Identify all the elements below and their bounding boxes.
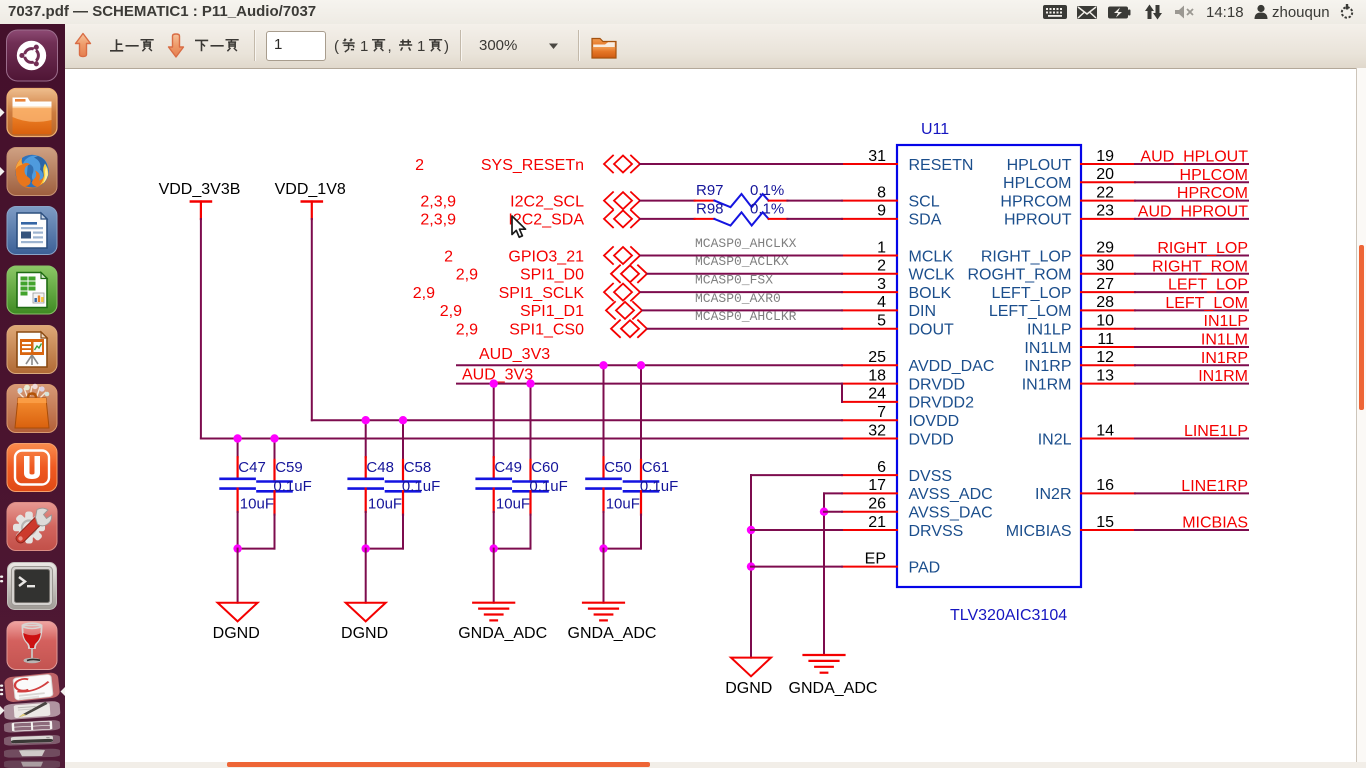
refdes U11 bbox=[921, 121, 949, 138]
focused arrow right edge bbox=[61, 687, 66, 696]
svg-text:29: 29 bbox=[1096, 239, 1114, 256]
junction C61 top bbox=[637, 361, 645, 369]
capacitor C48 10uF bbox=[349, 457, 402, 512]
wire net MCASP0_FSX bbox=[641, 291, 843, 293]
junction C50/C61 bottom bbox=[599, 544, 607, 552]
off-page connector SPI1_D1 bbox=[606, 302, 642, 319]
Ubuntu BFB launcher button bbox=[7, 30, 58, 81]
svg-text:HPLCOM: HPLCOM bbox=[1003, 175, 1071, 192]
svg-text:2: 2 bbox=[444, 248, 453, 265]
node RIGHT_LOP label bbox=[1157, 240, 1248, 257]
wire net AUD_HPLOUT bbox=[1135, 163, 1248, 165]
wire net MCASP0_AXR0 bbox=[643, 309, 843, 311]
svg-text:4: 4 bbox=[877, 294, 886, 311]
pin 7 IOVDD (U11 left) bbox=[842, 404, 959, 430]
svg-text:10: 10 bbox=[1096, 313, 1114, 330]
pin 3 BOLK (U11 left) bbox=[842, 276, 952, 302]
svg-text:2: 2 bbox=[415, 157, 424, 174]
svg-text:(: ( bbox=[334, 38, 339, 55]
pin 9 SDA (U11 left) bbox=[842, 203, 942, 229]
wire C60 top bbox=[530, 384, 532, 460]
wire net RIGHT_LOP bbox=[1135, 255, 1248, 257]
node IN1RM label bbox=[1198, 368, 1248, 385]
pin 17 AVSS_ADC (U11 left) bbox=[842, 477, 993, 503]
wire R98 right to chip bbox=[787, 218, 842, 220]
node MCASP0_AXR0 label bbox=[695, 291, 781, 306]
svg-text:GPIO3_21: GPIO3_21 bbox=[508, 248, 584, 265]
node MCASP0_AHCLKX label bbox=[695, 236, 797, 251]
svg-text:IN2L: IN2L bbox=[1038, 431, 1072, 448]
wire VDD_1V8 bus to IOVDD pin 7 bbox=[312, 419, 842, 421]
svg-text:DIN: DIN bbox=[909, 303, 937, 320]
pin 20 HPLCOM (U11 right) bbox=[1003, 166, 1135, 192]
node SPI1_SCLK page-ref 2,9 bbox=[413, 285, 435, 302]
wire C47 bottom bbox=[237, 512, 239, 549]
wire net LINE1RP bbox=[1135, 492, 1248, 494]
node MCASP0_FSX label bbox=[695, 273, 773, 288]
network up/down arrows icon bbox=[1145, 5, 1162, 20]
node LINE1RP label bbox=[1181, 478, 1248, 495]
wire net LEFT_LOP bbox=[1135, 291, 1248, 293]
svg-text:2,9: 2,9 bbox=[456, 267, 478, 284]
svg-text:0.1uF: 0.1uF bbox=[529, 478, 567, 495]
muted speaker icon bbox=[1175, 6, 1193, 19]
off-page connector SPI1_D0 bbox=[611, 265, 647, 282]
toolbar label: previous page bbox=[110, 39, 154, 51]
svg-text:HPLOUT: HPLOUT bbox=[1007, 157, 1072, 174]
wire AVSS_ADC pin 17 bbox=[824, 493, 842, 655]
node SPI1_D0 page-ref 2,9 bbox=[456, 267, 478, 284]
wire net IN1RM bbox=[1135, 383, 1248, 385]
pin 32 DVDD (U11 left) bbox=[842, 422, 954, 448]
svg-text:SCL: SCL bbox=[909, 193, 940, 210]
svg-text:IN2R: IN2R bbox=[1035, 486, 1071, 503]
wire I2C row R98 left bbox=[640, 218, 695, 220]
LibreOffice Impress icon bbox=[7, 326, 57, 374]
svg-text:RIGHT_LOP: RIGHT_LOP bbox=[981, 248, 1072, 265]
svg-text:DVSS: DVSS bbox=[909, 468, 953, 485]
wire net RIGHT_ROM bbox=[1135, 273, 1248, 275]
pin 25 AVDD_DAC (U11 left) bbox=[842, 349, 994, 375]
node SPI1_CS0 label bbox=[509, 322, 584, 339]
pin 29 RIGHT_LOP (U11 right) bbox=[981, 239, 1135, 265]
ground GNDA_ADC bbox=[568, 603, 657, 642]
pin 12 IN1RP (U11 right) bbox=[1024, 349, 1135, 375]
node SYS_RESETn page-ref 2 bbox=[415, 157, 424, 174]
junction PAD tee bbox=[747, 562, 755, 570]
pin 13 IN1RM (U11 right) bbox=[1022, 367, 1135, 393]
svg-text:R97: R97 bbox=[696, 182, 724, 199]
pin 31 RESETN (U11 left) bbox=[842, 148, 973, 174]
capacitor C60 0.1uF bbox=[514, 459, 568, 514]
fold: trash tile bbox=[4, 749, 60, 758]
node I2C2_SCL label bbox=[510, 193, 584, 210]
svg-text:DRVDD2: DRVDD2 bbox=[909, 395, 975, 412]
value TLV320AIC3104 bbox=[950, 607, 1067, 624]
svg-text:IN1RP: IN1RP bbox=[1024, 358, 1071, 375]
off-page connector SYS_RESETn bbox=[604, 156, 640, 173]
svg-text:DRVSS: DRVSS bbox=[909, 523, 964, 540]
svg-text:SPI1_SCLK: SPI1_SCLK bbox=[499, 285, 585, 302]
op-amp U11 (TLV320AIC3104 codec) body bbox=[897, 145, 1081, 587]
junction C59 top bbox=[270, 434, 278, 442]
ground GNDA_ADC bbox=[789, 655, 878, 697]
off-page connector I2C2_SCL bbox=[604, 192, 640, 209]
capacitor C59 0.1uF bbox=[258, 459, 312, 514]
junction C47 top bbox=[233, 434, 241, 442]
wire C47 to ground bbox=[237, 549, 239, 603]
svg-text:AVSS_DAC: AVSS_DAC bbox=[909, 505, 993, 522]
node GPIO3_21 label bbox=[508, 248, 584, 265]
pin 15 MICBIAS (U11 right) bbox=[1006, 514, 1135, 540]
svg-text:IN1RP: IN1RP bbox=[1201, 350, 1248, 367]
capacitor C58 0.1uF bbox=[386, 459, 440, 514]
mail envelope icon bbox=[1077, 6, 1097, 19]
svg-text:IN1RM: IN1RM bbox=[1022, 376, 1072, 393]
svg-text:9: 9 bbox=[877, 203, 886, 220]
svg-text:14: 14 bbox=[1096, 422, 1114, 439]
window-stack fold: Evince document tile bbox=[4, 672, 60, 703]
svg-text:22: 22 bbox=[1096, 184, 1114, 201]
junction C49 top bbox=[490, 379, 498, 387]
node SPI1_CS0 page-ref 2,9 bbox=[456, 322, 478, 339]
wire C61 bottom bbox=[604, 515, 642, 549]
node I2C2_SDA page-ref 2,3,9 bbox=[420, 212, 456, 229]
pin 8 SCL (U11 left) bbox=[842, 184, 940, 210]
resistor R97 0.1% bbox=[695, 182, 788, 207]
svg-text:0.1uF: 0.1uF bbox=[640, 478, 678, 495]
svg-text:AUD_3V3: AUD_3V3 bbox=[479, 346, 550, 363]
pin 11 IN1LM (U11 right) bbox=[1024, 331, 1135, 357]
svg-text:27: 27 bbox=[1096, 276, 1114, 293]
wire C49 bottom bbox=[493, 512, 495, 549]
svg-text:11: 11 bbox=[1097, 331, 1114, 348]
svg-text:WCLK: WCLK bbox=[909, 267, 956, 284]
off-page connector GPIO3_21 bbox=[604, 247, 640, 264]
svg-text:3: 3 bbox=[877, 276, 886, 293]
wire net IN1LM bbox=[1135, 346, 1248, 348]
svg-text:MCASP0_FSX: MCASP0_FSX bbox=[695, 273, 773, 288]
svg-text:RESETN: RESETN bbox=[909, 157, 974, 174]
node AUD_HPROUT label bbox=[1138, 203, 1248, 220]
wire C59 top bbox=[274, 439, 276, 460]
Terminal icon bbox=[8, 563, 57, 610]
svg-text:U11: U11 bbox=[921, 121, 949, 138]
fold: bottom phantom tile bbox=[4, 760, 60, 767]
pin 21 DRVSS (U11 left) bbox=[842, 514, 963, 540]
junction AVSS_DAC tee bbox=[820, 508, 828, 516]
svg-text:1: 1 bbox=[417, 38, 425, 55]
wire C50 to ground bbox=[603, 549, 605, 603]
ground GNDA_ADC bbox=[458, 603, 547, 642]
svg-text:15: 15 bbox=[1096, 514, 1114, 531]
wire C61 top bbox=[640, 365, 642, 460]
wire C50 top bbox=[603, 365, 605, 457]
wire net HPRCOM bbox=[1135, 200, 1248, 202]
node MICBIAS label bbox=[1182, 515, 1248, 532]
svg-text:23: 23 bbox=[1096, 203, 1114, 220]
svg-text:PAD: PAD bbox=[909, 559, 941, 576]
pin 1 MCLK (U11 left) bbox=[842, 239, 953, 265]
history folder icon bbox=[592, 39, 616, 59]
wire AUD_3V3 lower rail to DRVDD pin 18 bbox=[457, 383, 842, 385]
ground DGND bbox=[725, 658, 772, 697]
wire C50 bottom bbox=[603, 512, 605, 549]
Firefox icon bbox=[7, 148, 57, 196]
off-page connector SPI1_SCLK bbox=[604, 284, 640, 301]
Files running arrow bbox=[0, 108, 5, 117]
toolbar label: next page bbox=[195, 40, 239, 51]
wire R97 right to chip bbox=[787, 200, 842, 202]
pin 22 HPRCOM (U11 right) bbox=[1000, 184, 1135, 210]
junction C58 top bbox=[399, 416, 407, 424]
session gear icon bbox=[1342, 4, 1352, 18]
svg-text:LINE1RP: LINE1RP bbox=[1181, 478, 1248, 495]
svg-text:IN1LM: IN1LM bbox=[1024, 340, 1071, 357]
svg-text:7: 7 bbox=[877, 404, 886, 421]
fold: disk drive tile bbox=[4, 735, 60, 746]
svg-text:LEFT_LOM: LEFT_LOM bbox=[989, 303, 1072, 320]
pin 19 HPLOUT (U11 right) bbox=[1007, 148, 1135, 174]
svg-text:RIGHT_ROM: RIGHT_ROM bbox=[1152, 258, 1248, 275]
svg-text:19: 19 bbox=[1096, 148, 1114, 165]
svg-text:SDA: SDA bbox=[909, 212, 942, 229]
svg-text:R98: R98 bbox=[696, 200, 724, 217]
wire net LEFT_LOM bbox=[1135, 309, 1248, 311]
svg-text:DRVDD: DRVDD bbox=[909, 376, 966, 393]
wire C47 top bbox=[237, 439, 239, 458]
wire C49 top bbox=[493, 384, 495, 458]
svg-text:IN1RM: IN1RM bbox=[1198, 368, 1248, 385]
node AUD_3V3 lower label bbox=[462, 366, 533, 383]
wire net LINE1LP bbox=[1135, 438, 1248, 440]
svg-text:I2C2_SCL: I2C2_SCL bbox=[510, 193, 584, 210]
svg-text:MCASP0_AHCLKR: MCASP0_AHCLKR bbox=[695, 309, 797, 324]
wire VDD_3V3B vertical bbox=[200, 219, 202, 439]
fold: text editor tile bbox=[4, 701, 61, 721]
pin 30 ROGHT_ROM (U11 right) bbox=[968, 258, 1136, 284]
node HPLCOM label bbox=[1180, 167, 1248, 184]
off-page connector I2C2_SDA bbox=[604, 210, 640, 227]
svg-text:18: 18 bbox=[868, 367, 886, 384]
svg-text:VDD_1V8: VDD_1V8 bbox=[275, 181, 346, 198]
node HPRCOM label bbox=[1177, 185, 1248, 202]
wire net MCASP0_AHCLKX bbox=[641, 255, 843, 257]
pin EP PAD (U11 left) bbox=[842, 550, 940, 576]
svg-text:LINE1LP: LINE1LP bbox=[1184, 423, 1248, 440]
svg-text:HPLCOM: HPLCOM bbox=[1180, 167, 1248, 184]
svg-text:,: , bbox=[388, 38, 392, 55]
svg-text:DGND: DGND bbox=[341, 625, 388, 642]
node LINE1LP label bbox=[1184, 423, 1248, 440]
wire DRVDD to DRVDD2 jog bbox=[841, 384, 843, 402]
wire C59 bottom bbox=[238, 515, 275, 549]
svg-text:C47: C47 bbox=[238, 459, 266, 476]
svg-text:24: 24 bbox=[868, 386, 886, 403]
svg-text:GNDA_ADC: GNDA_ADC bbox=[458, 625, 547, 642]
node AUD_3V3 upper label bbox=[479, 346, 550, 363]
pin 6 DVSS (U11 left) bbox=[842, 459, 952, 485]
wire I2C row R97 left bbox=[640, 200, 695, 202]
focused-app pip marks (left of fold) bbox=[0, 685, 3, 696]
mouse cursor bbox=[509, 214, 529, 240]
fold: workspace grid tile bbox=[4, 720, 60, 733]
pin 28 LEFT_LOM (U11 right) bbox=[989, 294, 1135, 320]
svg-text:MCASP0_AXR0: MCASP0_AXR0 bbox=[695, 291, 781, 306]
wire C49 to ground bbox=[493, 549, 495, 603]
svg-text:12: 12 bbox=[1096, 349, 1114, 366]
svg-text:10uF: 10uF bbox=[496, 495, 530, 512]
node SPI1_D1 page-ref 2,9 bbox=[440, 303, 462, 320]
user session icon bbox=[1255, 5, 1268, 19]
node AUD_HPLOUT label bbox=[1140, 149, 1248, 166]
toolbar label: page 1 of 1 bbox=[334, 38, 449, 55]
svg-text:10uF: 10uF bbox=[368, 495, 402, 512]
junction C47/C59 bottom bbox=[233, 544, 241, 552]
svg-text:5: 5 bbox=[877, 313, 886, 330]
node SPI1_SCLK label bbox=[499, 285, 585, 302]
pin 23 HPROUT (U11 right) bbox=[1004, 203, 1135, 229]
wire VDD_3V3B bus to DVDD pin 32 bbox=[201, 438, 842, 440]
pin 4 DIN (U11 left) bbox=[842, 294, 936, 320]
svg-text:RIGHT_LOP: RIGHT_LOP bbox=[1157, 240, 1248, 257]
junction C48/C58 bottom bbox=[362, 544, 370, 552]
capacitor C49 10uF bbox=[477, 457, 530, 512]
wire AUD_3V3 upper rail to AVDD_DAC pin 25 bbox=[457, 364, 842, 366]
wire DVSS pin 6 bbox=[751, 475, 842, 657]
svg-text:6: 6 bbox=[877, 459, 886, 476]
svg-text:HPRCOM: HPRCOM bbox=[1000, 193, 1071, 210]
Wine icon bbox=[7, 622, 57, 670]
pin 14 IN2L (U11 right) bbox=[1038, 422, 1135, 448]
svg-text:10uF: 10uF bbox=[606, 495, 640, 512]
junction C48 top bbox=[362, 416, 370, 424]
Firefox running arrow bbox=[0, 167, 5, 176]
svg-text:HPROUT: HPROUT bbox=[1004, 212, 1072, 229]
svg-text:VDD_3V3B: VDD_3V3B bbox=[159, 181, 241, 198]
svg-text:DGND: DGND bbox=[725, 680, 772, 697]
svg-text:AUD_HPLOUT: AUD_HPLOUT bbox=[1140, 149, 1248, 166]
svg-text:ROGHT_ROM: ROGHT_ROM bbox=[968, 267, 1072, 284]
svg-text:2,9: 2,9 bbox=[440, 303, 462, 320]
wire C48 top bbox=[365, 420, 367, 457]
pin 16 IN2R (U11 right) bbox=[1035, 477, 1135, 503]
terminal window pips bbox=[0, 576, 3, 583]
capacitor C47 10uF bbox=[221, 457, 274, 512]
node I2C2_SDA label bbox=[508, 212, 584, 229]
ground DGND bbox=[213, 603, 260, 642]
svg-text:SYS_RESETn: SYS_RESETn bbox=[481, 157, 584, 174]
svg-text:C50: C50 bbox=[604, 459, 632, 476]
svg-text:1: 1 bbox=[360, 38, 368, 55]
wire C48 bottom bbox=[365, 512, 367, 549]
node MCASP0_ACLKX label bbox=[695, 254, 789, 269]
pin 24 DRVDD2 (U11 left) bbox=[842, 386, 974, 412]
svg-text:20: 20 bbox=[1096, 166, 1114, 183]
wire net IN1LP bbox=[1135, 328, 1248, 330]
svg-text:16: 16 bbox=[1096, 477, 1114, 494]
junction C50 top bbox=[599, 361, 607, 369]
node RIGHT_ROM label bbox=[1152, 258, 1248, 275]
svg-text:C61: C61 bbox=[642, 459, 670, 476]
node LEFT_LOP label bbox=[1168, 277, 1248, 294]
svg-text:8: 8 bbox=[877, 184, 886, 201]
svg-text:SPI1_D1: SPI1_D1 bbox=[520, 303, 584, 320]
wire C58 bottom bbox=[366, 515, 403, 549]
svg-text:AUD_3V3: AUD_3V3 bbox=[462, 366, 533, 383]
svg-text:2,9: 2,9 bbox=[413, 285, 435, 302]
svg-text:LEFT_LOP: LEFT_LOP bbox=[991, 285, 1071, 302]
svg-text:MCASP0_AHCLKX: MCASP0_AHCLKX bbox=[695, 236, 797, 251]
svg-text:zhouqun: zhouqun bbox=[1272, 4, 1330, 21]
pin 5 DOUT (U11 left) bbox=[842, 313, 954, 339]
junction C49/C60 bottom bbox=[490, 544, 498, 552]
node IN1RP label bbox=[1201, 350, 1248, 367]
capacitor C61 0.1uF bbox=[624, 459, 678, 514]
svg-text:): ) bbox=[444, 38, 449, 55]
svg-text:17: 17 bbox=[868, 477, 886, 494]
LibreOffice Calc icon bbox=[7, 266, 57, 314]
node SPI1_D0 label bbox=[520, 267, 584, 284]
svg-text:2,9: 2,9 bbox=[456, 322, 478, 339]
wire C48 to ground bbox=[365, 549, 367, 603]
svg-text:IN1LP: IN1LP bbox=[1204, 313, 1248, 330]
node SPI1_D1 label bbox=[520, 303, 584, 320]
svg-text:DOUT: DOUT bbox=[909, 322, 955, 339]
svg-text:32: 32 bbox=[868, 422, 886, 439]
pin 27 LEFT_LOP (U11 right) bbox=[991, 276, 1135, 302]
svg-text:GNDA_ADC: GNDA_ADC bbox=[789, 680, 878, 697]
Ubuntu Software Center icon bbox=[7, 384, 57, 433]
wire C58 top bbox=[402, 420, 404, 460]
svg-text:DVDD: DVDD bbox=[909, 431, 954, 448]
ground DGND bbox=[341, 603, 388, 642]
battery icon bbox=[1108, 7, 1131, 19]
svg-text:13: 13 bbox=[1096, 367, 1114, 384]
svg-text:0.1uF: 0.1uF bbox=[402, 478, 440, 495]
svg-text:AUD_HPROUT: AUD_HPROUT bbox=[1138, 203, 1248, 220]
svg-text:31: 31 bbox=[868, 148, 886, 165]
junction C60 top bbox=[526, 379, 534, 387]
capacitor C50 10uF bbox=[587, 457, 640, 512]
wire C60 bottom bbox=[494, 515, 531, 549]
resistor R98 0.1% bbox=[695, 200, 788, 225]
svg-text:25: 25 bbox=[868, 349, 886, 366]
running arrow (editor tile) bbox=[0, 706, 5, 715]
wire net AUD_HPROUT bbox=[1135, 218, 1248, 220]
svg-text:C49: C49 bbox=[494, 459, 522, 476]
next-page down arrow bbox=[169, 34, 184, 57]
node MCASP0_AHCLKR label bbox=[695, 309, 797, 324]
svg-text:21: 21 bbox=[868, 514, 886, 531]
svg-text:MCLK: MCLK bbox=[909, 248, 954, 265]
svg-text:C48: C48 bbox=[366, 459, 394, 476]
node I2C2_SCL page-ref 2,3,9 bbox=[420, 193, 456, 210]
svg-text:MCASP0_ACLKX: MCASP0_ACLKX bbox=[695, 254, 789, 269]
svg-text:MICBIAS: MICBIAS bbox=[1182, 515, 1248, 532]
svg-text:2,3,9: 2,3,9 bbox=[420, 212, 456, 229]
pin 10 IN1LP (U11 right) bbox=[1027, 313, 1135, 339]
svg-text:28: 28 bbox=[1096, 294, 1114, 311]
svg-text:TLV320AIC3104: TLV320AIC3104 bbox=[950, 607, 1067, 624]
keyboard indicator icon bbox=[1043, 5, 1067, 19]
svg-text:2: 2 bbox=[877, 258, 886, 275]
wire AVSS_DAC pin 26 bbox=[824, 511, 842, 513]
node GPIO3_21 page-ref 2 bbox=[444, 248, 453, 265]
svg-text:AVSS_ADC: AVSS_ADC bbox=[909, 486, 993, 503]
svg-text:C60: C60 bbox=[531, 459, 559, 476]
Ubuntu One icon bbox=[7, 444, 57, 492]
